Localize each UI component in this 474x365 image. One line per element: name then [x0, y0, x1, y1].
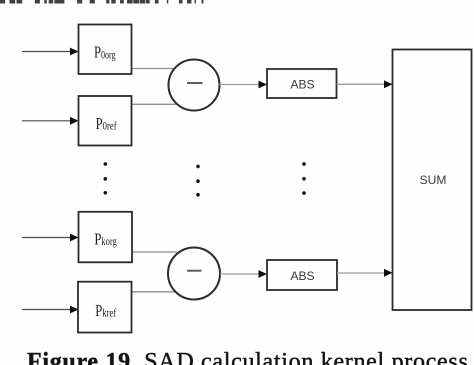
top cropped heading text row — [0, 0, 204, 4]
ellipsis dots column 3 — [302, 162, 306, 195]
ellipsis dots column 2 — [196, 165, 200, 197]
subtractor S1 — [169, 60, 220, 111]
block SUM — [393, 50, 472, 311]
subtractor S2 — [168, 248, 220, 300]
svg-text:ABS: ABS — [290, 78, 314, 92]
arrow into P0org — [22, 48, 79, 56]
block P0ref — [79, 96, 132, 146]
block ABS1 — [267, 69, 337, 98]
wire Pkorg to subtractor S2 — [132, 251, 177, 253]
arrow into P0ref — [22, 117, 79, 125]
ellipsis dots column 1 — [104, 162, 108, 194]
arrow ABS1 to SUM — [337, 80, 393, 88]
arrow subtractor S2 to ABS2 — [220, 270, 267, 278]
svg-text:ABS: ABS — [290, 269, 314, 283]
arrow subtractor S1 to ABS1 — [220, 81, 268, 89]
block Pkref — [78, 282, 132, 333]
block P0org — [79, 25, 132, 75]
block Pkorg — [79, 212, 133, 262]
arrow ABS2 to SUM — [337, 269, 393, 277]
svg-text:SUM: SUM — [420, 173, 447, 187]
block ABS2 — [267, 260, 337, 290]
wire Pkref to subtractor S2 — [132, 291, 179, 293]
svg-text:Figure 19. SAD calculation ker: Figure 19. SAD calculation kernel proces… — [27, 349, 468, 365]
arrow into Pkref — [22, 306, 79, 314]
wire P0org to subtractor S1 — [132, 68, 177, 70]
arrow into Pkorg — [22, 234, 79, 242]
wire P0ref to subtractor S1 — [132, 103, 180, 105]
